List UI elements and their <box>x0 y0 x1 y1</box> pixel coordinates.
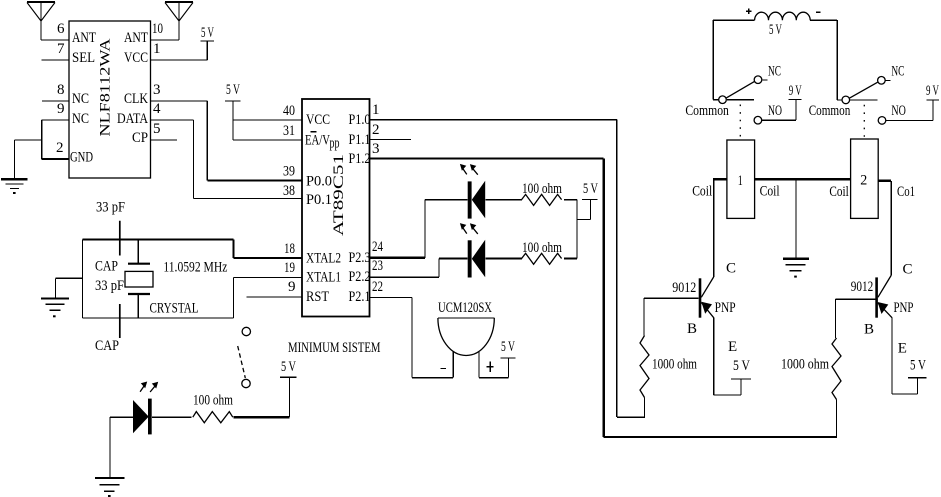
svg-text:NC: NC <box>768 64 781 80</box>
svg-text:5: 5 <box>153 121 161 137</box>
svg-text:Coil: Coil <box>760 184 780 200</box>
svg-text:5 V: 5 V <box>201 25 214 41</box>
svg-text:6: 6 <box>57 21 65 37</box>
svg-text:33 pF: 33 pF <box>96 200 125 216</box>
svg-text:100 ohm: 100 ohm <box>522 181 562 197</box>
svg-text:5 V: 5 V <box>583 181 598 197</box>
svg-text:P1.1: P1.1 <box>349 132 371 148</box>
svg-text:DATA: DATA <box>117 111 148 127</box>
svg-text:3: 3 <box>372 141 380 157</box>
svg-text:CAP: CAP <box>95 338 119 354</box>
svg-text:5 V: 5 V <box>226 82 240 98</box>
svg-text:40: 40 <box>283 103 295 119</box>
svg-text:P2.3: P2.3 <box>349 250 371 266</box>
svg-text:MINIMUM SISTEM: MINIMUM SISTEM <box>288 340 381 356</box>
svg-text:NLF8112WA: NLF8112WA <box>98 38 114 136</box>
svg-text:C: C <box>726 261 736 277</box>
svg-text:ANT: ANT <box>72 30 96 46</box>
svg-text:9 V: 9 V <box>789 83 802 99</box>
svg-text:PNP: PNP <box>715 300 736 316</box>
svg-text:ANT: ANT <box>124 30 148 46</box>
svg-text:5 V: 5 V <box>769 22 782 38</box>
svg-text:9012: 9012 <box>672 280 696 296</box>
svg-text:9: 9 <box>288 279 296 295</box>
svg-text:Coil: Coil <box>829 184 848 200</box>
svg-text:AT89C51: AT89C51 <box>331 154 347 236</box>
svg-text:E: E <box>728 339 737 355</box>
svg-text:NC: NC <box>72 111 89 127</box>
svg-text:5 V: 5 V <box>501 339 515 355</box>
svg-text:2: 2 <box>372 122 380 138</box>
svg-text:pp: pp <box>330 136 340 152</box>
svg-text:9012: 9012 <box>851 279 874 295</box>
svg-text:10: 10 <box>152 21 163 37</box>
svg-text:P1.2: P1.2 <box>349 151 371 167</box>
svg-text:1: 1 <box>372 102 380 118</box>
svg-text:9 V: 9 V <box>926 83 939 99</box>
svg-text:100 ohm: 100 ohm <box>193 393 233 409</box>
svg-text:NC: NC <box>72 91 89 107</box>
svg-text:11.0592 MHz: 11.0592 MHz <box>163 260 227 276</box>
svg-text:5 V: 5 V <box>281 359 296 375</box>
svg-text:8: 8 <box>57 82 65 98</box>
svg-text:P0.1: P0.1 <box>306 192 332 208</box>
svg-text:2: 2 <box>860 173 867 189</box>
svg-text:UCM120SX: UCM120SX <box>438 300 492 316</box>
svg-text:VCC: VCC <box>124 50 148 66</box>
svg-text:19: 19 <box>284 260 295 276</box>
svg-text:9: 9 <box>57 101 65 117</box>
svg-text:NC: NC <box>891 63 904 79</box>
svg-text:E: E <box>898 341 907 357</box>
svg-text:Common: Common <box>685 103 729 119</box>
svg-text:1: 1 <box>153 41 161 57</box>
svg-text:38: 38 <box>283 183 295 199</box>
svg-text:GND: GND <box>70 150 93 166</box>
svg-text:P2.2: P2.2 <box>349 269 371 285</box>
svg-text:C: C <box>903 262 913 278</box>
svg-text:39: 39 <box>283 164 295 180</box>
svg-text:B: B <box>687 321 697 337</box>
svg-text:31: 31 <box>283 123 295 139</box>
svg-text:CLK: CLK <box>124 91 148 107</box>
svg-text:5 V: 5 V <box>910 358 926 374</box>
svg-text:P1.0: P1.0 <box>349 112 371 128</box>
svg-text:P0.0: P0.0 <box>306 174 332 190</box>
svg-text:B: B <box>864 322 874 338</box>
svg-text:1000 ohm: 1000 ohm <box>652 357 697 373</box>
svg-text:1: 1 <box>738 173 743 189</box>
svg-text:NO: NO <box>768 103 782 119</box>
svg-text:18: 18 <box>284 241 295 257</box>
svg-text:2: 2 <box>56 140 64 156</box>
svg-text:24: 24 <box>372 239 383 255</box>
svg-text:CP: CP <box>132 130 148 146</box>
svg-text:33 pF: 33 pF <box>95 278 124 294</box>
svg-text:VCC: VCC <box>306 112 330 128</box>
svg-text:Common: Common <box>809 103 851 119</box>
svg-text:PNP: PNP <box>894 300 914 316</box>
svg-text:CAP: CAP <box>95 259 118 275</box>
svg-text:Co1: Co1 <box>897 184 915 200</box>
svg-text:100 ohm: 100 ohm <box>522 240 562 256</box>
svg-text:RST: RST <box>306 289 329 305</box>
svg-text:P2.1: P2.1 <box>349 289 371 305</box>
svg-text:4: 4 <box>153 101 161 117</box>
svg-text:NO: NO <box>891 103 906 119</box>
svg-text:5 V: 5 V <box>733 358 750 374</box>
svg-text:1000 ohm: 1000 ohm <box>781 357 829 373</box>
svg-text:XTAL2: XTAL2 <box>306 251 341 267</box>
svg-text:CRYSTAL: CRYSTAL <box>150 301 199 317</box>
svg-text:EA/V: EA/V <box>305 133 330 149</box>
svg-text:3: 3 <box>153 82 161 98</box>
svg-text:SEL: SEL <box>72 50 95 66</box>
svg-text:23: 23 <box>372 258 383 274</box>
svg-text:22: 22 <box>372 279 383 295</box>
svg-text:XTAL1: XTAL1 <box>306 270 341 286</box>
svg-text:7: 7 <box>57 41 65 57</box>
svg-text:Coil: Coil <box>692 184 712 200</box>
